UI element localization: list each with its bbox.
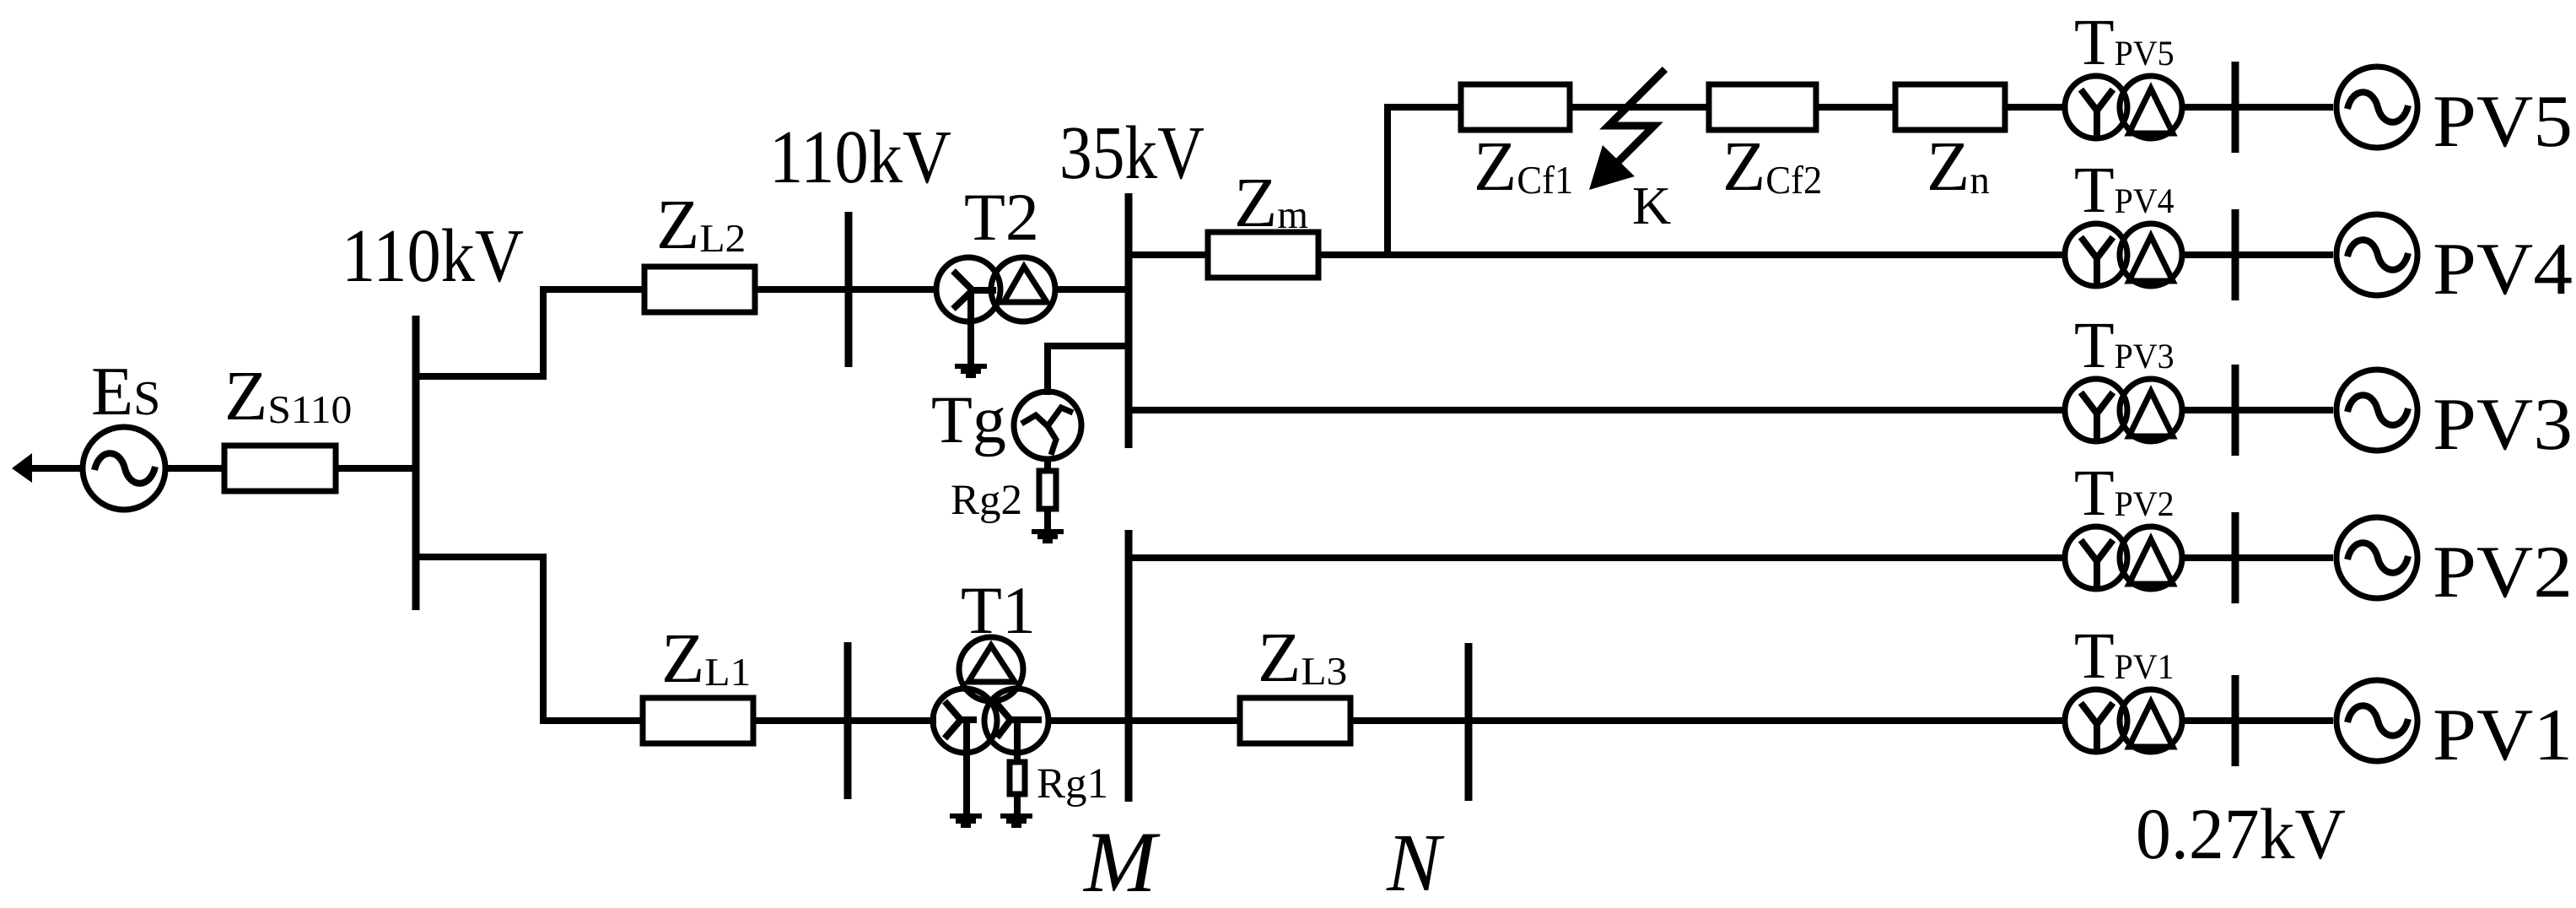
svg-text:K: K xyxy=(1632,176,1671,235)
source Es circle xyxy=(83,427,165,510)
T2 primary Y symbol xyxy=(953,271,996,309)
system arrow at Es xyxy=(12,453,32,483)
PV1 sine symbol xyxy=(2347,705,2408,736)
wire bus lower tap xyxy=(416,554,543,560)
bus N xyxy=(1465,643,1473,801)
bus 35kV xyxy=(1125,193,1133,448)
transformer TPV2 primary circle xyxy=(2065,527,2127,589)
wire to ZCf1 xyxy=(1388,104,1460,111)
T1 secondary Y symbol xyxy=(996,703,1042,738)
wire Zn to TPV5 xyxy=(2005,104,2064,111)
svg-text:PV2: PV2 xyxy=(2433,532,2573,613)
wire junction riser to PV5 branch xyxy=(1384,104,1391,258)
transformer TPV3 primary circle xyxy=(2065,379,2127,441)
transformer TPV4 primary circle xyxy=(2065,224,2127,286)
wire to ZL2 xyxy=(543,286,644,293)
transformer T2 secondary circle xyxy=(991,257,1055,322)
T1 primary Y symbol xyxy=(945,701,977,738)
transformer T2 primary circle xyxy=(936,257,1000,322)
impedance ZS110 box xyxy=(224,446,336,491)
TPV2 delta symbol xyxy=(2129,539,2173,584)
TPV4 Y symbol xyxy=(2081,237,2113,287)
wire Tg to link xyxy=(1044,343,1051,395)
ground Rg1 xyxy=(1000,813,1032,828)
ground T1 primary neutral xyxy=(950,813,982,828)
impedance Zn box xyxy=(1895,84,2005,130)
PV4 sine symbol xyxy=(2347,240,2408,270)
TPV2 Y symbol xyxy=(2081,540,2113,590)
fault K lightning bolt xyxy=(1609,69,1665,169)
TPV1 delta symbol xyxy=(2129,702,2173,747)
T1 secondary neutral stem xyxy=(1014,721,1021,764)
impedance Zm box xyxy=(1208,232,1318,278)
svg-text:110kV: 110kV xyxy=(342,214,524,298)
svg-text:Rg2: Rg2 xyxy=(951,477,1022,524)
wire ZL1 to 110kV bus T1 xyxy=(754,717,848,724)
T1 primary neutral stem xyxy=(963,721,970,815)
T2 neutral stem xyxy=(967,290,974,365)
wire ZS110 to 110kV bus xyxy=(336,465,416,472)
ground T2 neutral xyxy=(955,364,987,378)
svg-text:M: M xyxy=(1082,814,1161,908)
svg-text:T2: T2 xyxy=(964,181,1039,255)
wire M bus to TPV2 feeder PV2 xyxy=(1129,554,2064,561)
impedance ZL2 box xyxy=(644,267,755,312)
wire TPV2 to PV2 xyxy=(2182,554,2333,561)
wire bus to T1 xyxy=(848,717,936,724)
wire arrow to Es xyxy=(25,465,81,472)
TPV5 delta symbol xyxy=(2129,89,2173,133)
svg-text:35kV: 35kV xyxy=(1059,111,1204,195)
TPV3 Y symbol xyxy=(2081,392,2113,442)
bus 110kV main xyxy=(412,316,420,610)
wire link to 35kV bus xyxy=(1044,343,1129,349)
transformer TPV2 secondary circle xyxy=(2120,527,2182,589)
TPV5 Y symbol xyxy=(2081,89,2113,139)
resistor Rg1 xyxy=(1010,762,1025,794)
wire ZCf1 to ZCf2 xyxy=(1569,104,1710,111)
source PV1 circle xyxy=(2336,680,2417,761)
wire TPV5 to PV5 xyxy=(2182,104,2333,111)
impedance ZL1 box xyxy=(643,698,753,743)
bus PV3 0.27kV xyxy=(2232,365,2239,456)
transformer TPV1 primary circle xyxy=(2065,689,2127,752)
bus PV1 0.27kV xyxy=(2232,675,2239,766)
wire ZL3 to TPV1 feeder PV1 xyxy=(1350,717,2064,724)
TPV1 Y symbol xyxy=(2081,703,2113,753)
T2 delta symbol xyxy=(1004,267,1047,302)
svg-text:PV5: PV5 xyxy=(2433,81,2573,163)
Es sine symbol xyxy=(94,453,155,484)
transformer TPV5 secondary circle xyxy=(2120,76,2182,138)
wire T1 to ZL3 through M bus xyxy=(1048,717,1240,724)
wire Rg2 to ground xyxy=(1044,509,1051,531)
wire T2 to 35kV bus xyxy=(1055,286,1129,293)
transformer T1 secondary circle xyxy=(984,689,1048,753)
wire 35kV bus to TPV3 feeder PV3 xyxy=(1129,407,2064,413)
wire Zm to TPV4 feeder PV4 xyxy=(1318,251,2064,258)
svg-text:0.27kV: 0.27kV xyxy=(2136,793,2346,874)
impedance ZCf1 box xyxy=(1461,84,1570,130)
TPV4 delta symbol xyxy=(2129,236,2173,281)
svg-text:110kV: 110kV xyxy=(769,116,951,199)
PV5 sine symbol xyxy=(2347,92,2408,122)
wire TPV3 to PV3 xyxy=(2182,407,2333,413)
source PV2 circle xyxy=(2336,517,2417,598)
resistor Rg2 xyxy=(1039,471,1056,509)
bus PV5 0.27kV xyxy=(2232,62,2239,153)
PV2 sine symbol xyxy=(2347,543,2408,573)
bus PV2 0.27kV xyxy=(2232,512,2239,603)
wire bus to T2 xyxy=(849,286,936,293)
bus 110kV T1 side xyxy=(844,642,852,799)
wire to ZL1 xyxy=(543,717,644,724)
transformer TPV3 secondary circle xyxy=(2120,379,2182,441)
impedance ZL3 box xyxy=(1240,698,1350,743)
svg-text:PV1: PV1 xyxy=(2433,695,2573,776)
transformer T1 primary circle xyxy=(933,689,997,753)
wire riser up xyxy=(540,286,547,380)
svg-text:Rg1: Rg1 xyxy=(1037,760,1108,808)
bus PV4 0.27kV xyxy=(2232,209,2239,300)
TPV3 delta symbol xyxy=(2129,392,2173,436)
bus M xyxy=(1125,530,1133,802)
wire TPV4 to PV4 xyxy=(2182,251,2333,258)
grounding transformer Tg circle xyxy=(1014,392,1081,459)
wire riser down xyxy=(540,554,547,724)
ground Rg2 xyxy=(1032,529,1064,543)
transformer TPV4 secondary circle xyxy=(2120,224,2182,286)
wire ZL2 to 110kV bus T2 xyxy=(755,286,849,293)
Rg1 ground stem xyxy=(1014,794,1021,815)
transformer TPV5 primary circle xyxy=(2065,76,2127,138)
wire Es to ZS110 xyxy=(165,465,224,472)
wire 35kV bus to Zm xyxy=(1129,251,1208,258)
source PV5 circle xyxy=(2336,67,2417,148)
wire Tg to Rg2 xyxy=(1044,459,1051,473)
wire bus upper tap xyxy=(416,373,543,380)
bus 110kV T2 side xyxy=(845,212,853,367)
wire TPV1 to PV1 xyxy=(2182,717,2333,724)
transformer TPV1 secondary circle xyxy=(2120,689,2182,752)
svg-text:Tg: Tg xyxy=(931,383,1006,457)
svg-text:PV3: PV3 xyxy=(2433,384,2573,466)
svg-text:N: N xyxy=(1386,818,1445,908)
source PV4 circle xyxy=(2336,214,2417,295)
PV3 sine symbol xyxy=(2347,395,2408,425)
wire ZCf2 to Zn xyxy=(1817,104,1895,111)
impedance ZCf2 box xyxy=(1709,84,1816,130)
svg-text:PV4: PV4 xyxy=(2433,229,2573,311)
Tg zigzag winding symbol xyxy=(1021,408,1073,455)
source PV3 circle xyxy=(2336,370,2417,451)
transformer T1 tertiary circle xyxy=(959,637,1023,701)
fault K arrowhead xyxy=(1589,145,1635,190)
T1 delta symbol xyxy=(968,646,1015,682)
